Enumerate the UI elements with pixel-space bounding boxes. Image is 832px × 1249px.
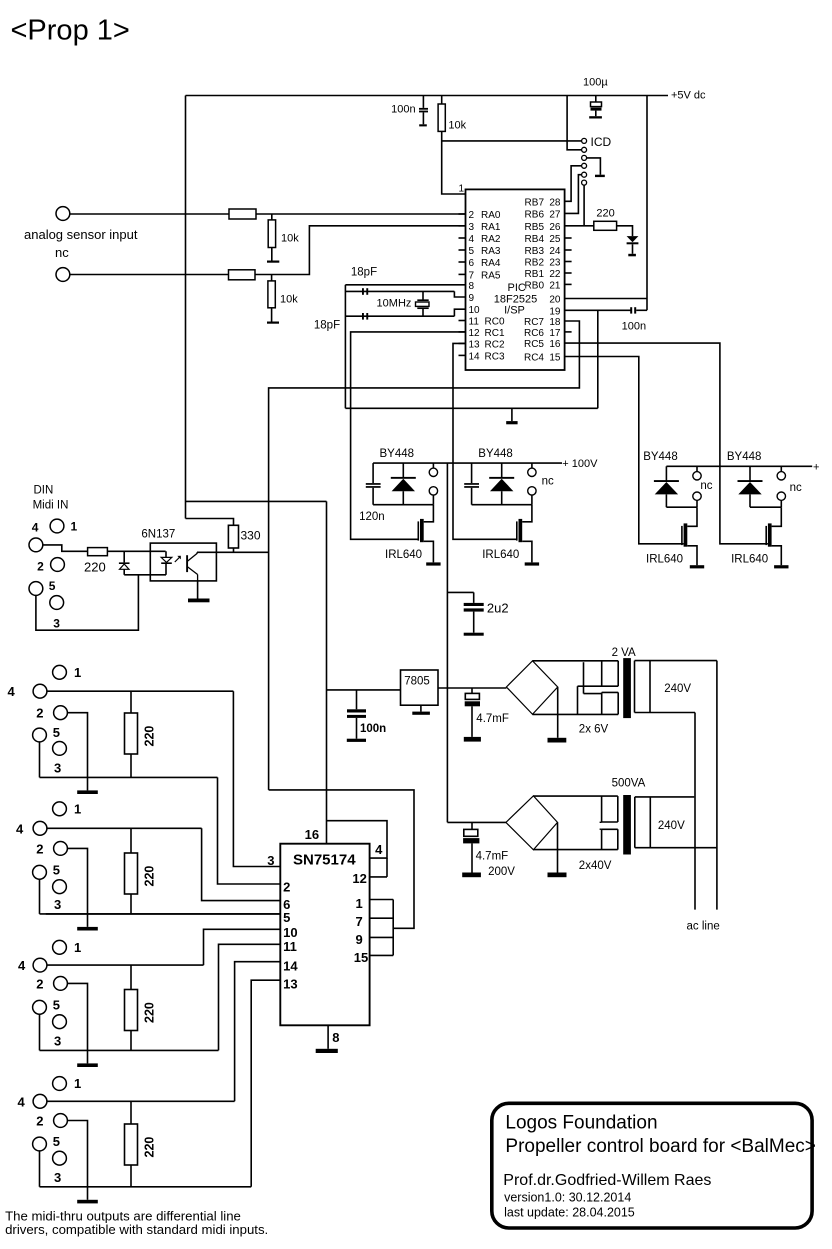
wire ground bus horizontal: [345, 407, 597, 409]
connector DIN-in pin1 circle: [50, 519, 64, 533]
wire +5V to PIC VDD pin20: [646, 96, 648, 311]
connector output 2 terminal A: [531, 463, 533, 468]
svg-text:100µ: 100µ: [583, 77, 608, 89]
transformer T2 core: [623, 795, 631, 855]
svg-text:220: 220: [143, 866, 157, 887]
svg-text:25: 25: [549, 234, 561, 245]
svg-text:4: 4: [16, 821, 24, 836]
transformer T1 secondary winding lower: [602, 691, 619, 693]
svg-text:2 VA: 2 VA: [612, 647, 636, 659]
svg-text:27: 27: [549, 209, 561, 220]
wire thru4 pin2 to return: [67, 1121, 87, 1187]
svg-text:20: 20: [549, 295, 561, 306]
svg-text:RC7: RC7: [524, 317, 544, 328]
wire MCLR net from 10k to PIC pin1: [442, 131, 466, 194]
wire 220 to LED: [617, 226, 633, 236]
connector thru3 pin5 circle: [33, 1000, 47, 1014]
connector output 4 terminal A: [780, 466, 782, 471]
svg-text:3: 3: [53, 617, 60, 631]
wire PIC pin26 to 220 resistor: [565, 225, 594, 227]
PIC pin 3 stub: [459, 225, 466, 227]
svg-text:26: 26: [549, 222, 561, 233]
svg-text:2: 2: [36, 706, 43, 721]
transformer T1 secondary leads: [533, 660, 619, 662]
transformer T1 core: [623, 658, 631, 718]
svg-text:24: 24: [549, 246, 561, 257]
svg-text:RA5: RA5: [481, 270, 501, 281]
svg-text:nc: nc: [55, 245, 69, 260]
svg-text:1: 1: [71, 520, 78, 534]
PIC pin 6 stub: [459, 261, 466, 263]
svg-text:4: 4: [32, 521, 39, 535]
wire PIC pin13 RC2 to Q2 gate: [453, 343, 517, 539]
PIC pin 12 stub: [459, 331, 466, 333]
svg-text:4: 4: [469, 234, 475, 245]
svg-text:SN75174: SN75174: [293, 852, 356, 869]
wire opto LED return: [124, 574, 166, 576]
svg-text:ac line: ac line: [687, 921, 720, 933]
wire thru1 return bus: [40, 776, 218, 778]
svg-text:17: 17: [549, 328, 561, 339]
ground 7805: [420, 705, 422, 711]
capacitor 18pF lower: [362, 313, 364, 320]
svg-text:IRL640: IRL640: [385, 549, 422, 561]
svg-text:2: 2: [36, 976, 43, 991]
capacitor 4.7mF 200V: [471, 822, 473, 829]
svg-text:5: 5: [53, 1134, 60, 1149]
connector thru2 pin5 circle: [33, 865, 47, 879]
wire thru3 return bus: [40, 1049, 219, 1051]
svg-text:1: 1: [459, 184, 465, 195]
svg-text:6: 6: [469, 258, 475, 269]
svg-text:2: 2: [36, 1114, 43, 1129]
svg-text:4: 4: [375, 842, 383, 857]
diode BY448 D1: [402, 463, 404, 478]
PIC pin 7 stub: [459, 273, 466, 275]
ground 100n at 7805: [347, 739, 366, 742]
svg-text:18: 18: [549, 317, 561, 328]
wire +100V trunk down to bridge: [446, 463, 448, 822]
svg-text:220: 220: [143, 1002, 157, 1023]
wire thru3 pin5 to return: [39, 1014, 41, 1050]
svg-text:RC5: RC5: [524, 339, 544, 350]
svg-text:220: 220: [143, 1137, 157, 1158]
svg-text:BY448: BY448: [727, 451, 762, 463]
svg-text:10k: 10k: [281, 233, 299, 245]
svg-text:2: 2: [36, 841, 43, 856]
svg-text:2: 2: [469, 210, 475, 221]
svg-text:4: 4: [18, 958, 26, 973]
wire driver pin3 to thru1 hot: [233, 691, 280, 866]
wire 330 to opto output: [233, 548, 235, 552]
LED indicator diode: [627, 236, 639, 242]
svg-text:<Prop 1>: <Prop 1>: [11, 15, 130, 47]
connector output 3 terminal A: [696, 466, 698, 471]
wire ac line 1: [694, 713, 696, 910]
svg-text:12: 12: [469, 328, 481, 339]
ground Q1 source: [426, 562, 440, 565]
svg-text:nc: nc: [542, 476, 554, 488]
svg-text:RC1: RC1: [485, 328, 505, 339]
svg-text:version1.0: 30.12.2014: version1.0: 30.12.2014: [504, 1191, 631, 1205]
wire ICD pin4 to PIC pin28: [565, 166, 582, 202]
svg-text:5: 5: [53, 862, 60, 877]
svg-text:Prof.dr.Godfried-Willem Raes: Prof.dr.Godfried-Willem Raes: [503, 1172, 711, 1189]
wire thru1 pin5 to return: [39, 742, 41, 778]
wire PIC pin19 to 100n cap: [565, 309, 632, 311]
connector thru2 pin2 circle: [54, 842, 68, 856]
wire OSC1 line upper: [345, 290, 454, 292]
svg-text:2u2: 2u2: [487, 601, 509, 616]
driver pin12 wire: [370, 876, 387, 878]
transformer T1 secondary crossover: [583, 662, 585, 693]
svg-text:100n: 100n: [622, 321, 646, 333]
svg-text:RC4: RC4: [524, 353, 544, 364]
svg-text:15: 15: [354, 950, 368, 965]
resistor 10k divider 2: [271, 275, 273, 281]
wire ICD pin6 to PIC pin26 net: [583, 185, 585, 226]
svg-text:8: 8: [469, 281, 475, 292]
svg-text:7: 7: [355, 914, 362, 929]
svg-text:200V: 200V: [488, 866, 515, 878]
resistor 220 thru1: [130, 691, 132, 713]
ground thru4: [87, 1187, 89, 1200]
svg-text:RB2: RB2: [525, 258, 545, 269]
wire OSC2 step to pin10: [454, 309, 465, 316]
PIC pin 17 stub: [565, 331, 572, 333]
svg-text:13: 13: [283, 977, 297, 992]
svg-text:RB1: RB1: [525, 269, 545, 280]
connector DIN-in pin2 circle: [51, 558, 65, 572]
connector DIN-in pin4 circle: [29, 538, 43, 552]
connector output 1 terminal B: [429, 487, 437, 495]
wire OSC1 step to pin9: [454, 291, 465, 297]
transformer T2 secondary winding lower: [602, 828, 618, 830]
svg-text:RB7: RB7: [525, 197, 545, 208]
wire +5V branch to SN75174: [186, 500, 327, 502]
PIC pin 5 stub: [459, 249, 466, 251]
transistor Q1 IRL640: [424, 505, 434, 522]
svg-text:240V: 240V: [658, 820, 685, 832]
svg-text:last update: 28.04.2015: last update: 28.04.2015: [504, 1206, 635, 1220]
svg-text:16: 16: [305, 827, 319, 842]
titleblock rounded box: [492, 1103, 812, 1228]
wire driver pin13 to thru4 return: [251, 980, 280, 1187]
connector ICD pin3: [582, 155, 587, 160]
svg-text:2: 2: [283, 880, 290, 895]
wire PIC pin16 RC5 to Q4 gate: [565, 343, 768, 544]
connector output 4 terminal B: [777, 492, 785, 500]
svg-text:12: 12: [352, 871, 366, 886]
opto internal LED: [165, 551, 167, 557]
connector thru4 pin1 circle: [53, 1077, 67, 1091]
wire +5V left trunk down: [185, 96, 187, 519]
optocoupler 6N137 body: [150, 543, 216, 581]
svg-text:BY448: BY448: [380, 448, 415, 460]
capacitor channel 2: [471, 463, 473, 483]
wire sensor 1 to resistor: [70, 213, 229, 215]
wire opto output to RC7 net: [197, 551, 269, 553]
wire channel 2 cathode bus: [472, 504, 532, 506]
svg-text:220: 220: [143, 726, 157, 747]
svg-text:ICD: ICD: [591, 135, 612, 149]
svg-text:21: 21: [549, 280, 561, 291]
svg-text:100n: 100n: [360, 723, 386, 735]
svg-text:5: 5: [283, 910, 290, 925]
svg-text:RA4: RA4: [481, 258, 501, 269]
ground 4.7mF low voltage: [464, 737, 481, 742]
svg-text:Logos Foundation: Logos Foundation: [505, 1113, 657, 1134]
wire PIC pin15 RC4 to Q3 gate: [565, 357, 684, 544]
diode BY448 D2: [501, 463, 503, 478]
svg-text:9: 9: [469, 293, 475, 304]
svg-text:7: 7: [469, 270, 475, 281]
ground thru2: [87, 914, 89, 927]
wire PIC pin19 VSS riser down: [597, 310, 599, 408]
wire channel 1 cathode bus: [373, 504, 433, 506]
wire ac line 2: [716, 661, 718, 910]
connector thru2 pin1 circle: [53, 802, 67, 816]
connector thru4 pin3 circle: [53, 1151, 67, 1165]
wire channel 3 cathode bus: [666, 506, 697, 508]
wire sensor 2 to resistor: [70, 274, 229, 276]
svg-text:6N137: 6N137: [141, 529, 175, 541]
crystal 10MHz: [422, 291, 424, 300]
resistor 10k divider 1: [271, 214, 273, 220]
PIC 18F2525 U1 body: [466, 189, 565, 370]
PIC pin 22 stub: [565, 272, 572, 274]
connector thru2 pin4 circle: [33, 821, 47, 835]
svg-text:4: 4: [18, 1094, 26, 1109]
capacitor 100n at 7805 output: [356, 690, 358, 709]
wire ICD pin3 to ground: [587, 158, 601, 175]
svg-text:18pF: 18pF: [314, 320, 340, 332]
diode BY448 D4: [749, 466, 751, 481]
wire +100V from bridge B2: [447, 821, 506, 823]
ground opto emitter: [197, 581, 199, 599]
svg-text:RA2: RA2: [481, 234, 501, 245]
ground bridge B2: [557, 822, 559, 872]
capacitor 100n at pin19: [630, 307, 632, 313]
connector thru1 pin2 circle: [54, 706, 68, 720]
svg-text:28: 28: [549, 197, 561, 208]
wire channel 4 cathode bus: [750, 506, 781, 508]
svg-text:RB4: RB4: [525, 234, 545, 245]
wire driver pin10 to thru3 hot: [204, 929, 281, 965]
svg-text:10MHz: 10MHz: [377, 298, 412, 310]
wire driver pin2 to thru1 return: [218, 777, 281, 884]
svg-text:4: 4: [8, 684, 16, 699]
svg-text:RA1: RA1: [481, 222, 501, 233]
PIC pin 13 stub: [459, 342, 466, 344]
svg-text:11: 11: [283, 939, 297, 954]
wire ICD pin1 to MCLR: [442, 140, 582, 142]
ground LED: [632, 244, 634, 254]
svg-text:9: 9: [355, 932, 362, 947]
svg-text:3: 3: [469, 222, 475, 233]
capacitor 4.7mF low voltage: [471, 688, 473, 693]
svg-text:2x40V: 2x40V: [579, 860, 612, 872]
svg-text:15: 15: [549, 353, 561, 364]
wire driver pin5 to thru2 return: [46, 913, 280, 915]
svg-text:2: 2: [37, 560, 44, 574]
svg-text:3: 3: [54, 1170, 61, 1185]
svg-text:RB6: RB6: [525, 209, 545, 220]
transformer T1 secondary winding upper: [601, 661, 603, 686]
wire ICD pin5 to PIC pin27: [565, 175, 582, 214]
svg-text:1: 1: [74, 1076, 81, 1091]
connector DIN-in pin5 circle: [29, 582, 43, 596]
resistor 220 thru4: [130, 1101, 132, 1124]
wire OSC2 line lower: [345, 315, 454, 317]
wire thru1 pin4 hot: [47, 690, 234, 692]
svg-text:RA3: RA3: [481, 246, 501, 257]
wire VSS riser at crystal: [344, 285, 346, 409]
svg-text:BY448: BY448: [643, 451, 678, 463]
svg-text:IRL640: IRL640: [482, 549, 519, 561]
svg-text:Propeller control board for <B: Propeller control board for <BalMec>: [505, 1136, 816, 1157]
connector thru3 pin3 circle: [53, 1015, 67, 1029]
wire thru1 pin2 to return: [67, 713, 87, 778]
resistor 10k MCLR pullup: [441, 96, 443, 105]
connector thru1 pin5 circle: [33, 728, 47, 742]
svg-text:1: 1: [74, 940, 81, 955]
connector thru3 pin1 circle: [53, 940, 67, 954]
wire PIC pin20 to +5V: [565, 298, 647, 300]
svg-text:1: 1: [74, 665, 81, 680]
resistor 220 thru3: [130, 965, 132, 989]
svg-text:+: +: [813, 461, 819, 473]
PIC pin 23 stub: [565, 261, 572, 263]
svg-text:nc: nc: [790, 482, 802, 494]
connector thru4 pin2 circle: [54, 1114, 68, 1128]
wire +5V to 330 pullup: [186, 519, 234, 526]
capacitor 2u2: [447, 591, 473, 593]
svg-text:RB3: RB3: [525, 246, 545, 257]
wire driver pin6 to thru2 hot: [202, 828, 281, 900]
capacitor 18pF upper: [362, 288, 364, 295]
ground symbol main: [511, 408, 513, 421]
svg-text:19: 19: [549, 306, 561, 317]
svg-text:3: 3: [54, 1033, 61, 1048]
resistor sensor series 1: [229, 209, 256, 219]
svg-text:+ 100V: + 100V: [562, 458, 598, 470]
ground 10k divider 2: [271, 308, 273, 322]
capacitor 100u electrolytic: [595, 96, 597, 103]
driver SN75174 U4 body: [280, 844, 369, 1026]
svg-text:16: 16: [549, 339, 561, 350]
resistor 220 LED series: [594, 221, 617, 230]
svg-text:nc: nc: [700, 480, 712, 492]
svg-text:RC6: RC6: [524, 328, 544, 339]
svg-text:220: 220: [596, 208, 614, 220]
connector thru3 pin2 circle: [54, 977, 68, 991]
PIC pin 2 stub: [459, 213, 466, 215]
wire thru2 pin4 hot: [47, 827, 202, 829]
connector ICD pin2: [582, 147, 587, 152]
svg-text:10: 10: [469, 305, 481, 316]
svg-text:220: 220: [84, 560, 106, 575]
svg-text:23: 23: [549, 258, 561, 269]
connector thru1 pin1 circle: [53, 665, 67, 679]
connector output 2 terminal B: [528, 487, 536, 495]
svg-text:10k: 10k: [448, 120, 466, 132]
svg-text:analog sensor input: analog sensor input: [24, 227, 138, 242]
ground 2u2: [464, 633, 484, 636]
connector output 1 terminal A: [432, 463, 434, 468]
wire sensor 2 to PIC pin3 RA1: [255, 226, 466, 275]
svg-text:RB5: RB5: [525, 222, 545, 233]
svg-text:8: 8: [332, 1030, 339, 1045]
connector thru3 pin4 circle: [33, 958, 47, 972]
wire +5V top rail: [186, 95, 669, 97]
svg-text:5: 5: [49, 579, 56, 593]
connector thru4 pin4 circle: [33, 1094, 47, 1108]
svg-text:4.7mF: 4.7mF: [476, 851, 509, 863]
transistor Q2 IRL640: [522, 505, 532, 522]
wire thru2 return bus: [40, 913, 281, 915]
ground Q2 source: [525, 562, 539, 565]
svg-text:240V: 240V: [664, 683, 691, 695]
diode reverse protection: [123, 551, 125, 562]
wire DIN-in pin4 to 220: [43, 545, 88, 551]
resistor 330 pullup: [228, 525, 238, 548]
wire PIC pin18 RC7 to opto output: [269, 321, 580, 790]
resistor sensor series 2: [229, 270, 256, 280]
resistor 220 thru2: [130, 828, 132, 853]
PIC pin 14 stub: [459, 354, 466, 356]
connector thru2 pin3 circle: [53, 880, 67, 894]
svg-text:RB0: RB0: [525, 280, 545, 291]
svg-text:1: 1: [74, 801, 81, 816]
driver pin8 ground: [327, 1025, 329, 1049]
wire sensor 1 to PIC pin2 RA0: [256, 213, 466, 215]
wire thru3 pin2 to return: [67, 983, 87, 1050]
wire 7805 output to +5V net: [327, 689, 401, 691]
connector thru1 pin3 circle: [53, 742, 67, 756]
ground 10k divider 1: [271, 248, 273, 261]
wire +100V rail channels 1-2: [373, 462, 562, 464]
driver pin4 wire: [327, 821, 388, 858]
regulator 7805 U3 body: [401, 670, 439, 705]
svg-text:RC3: RC3: [485, 351, 505, 362]
svg-text:10k: 10k: [280, 294, 298, 306]
ground Q3 source: [690, 565, 704, 568]
capacitor 100n top-left: [422, 96, 424, 108]
transformer T1 primary winding: [634, 661, 636, 713]
opto internal transistor: [186, 555, 188, 572]
wire thru4 pin5 to return: [39, 1151, 41, 1187]
svg-text:14: 14: [469, 351, 481, 362]
connector ICD pin6: [582, 180, 587, 185]
wire thru4 pin4 hot: [47, 1100, 235, 1102]
svg-text:13: 13: [469, 339, 481, 350]
wire thru4 return bus: [40, 1186, 252, 1188]
svg-text:drivers, compatible with stand: drivers, compatible with standard midi i…: [5, 1222, 268, 1237]
wire thru2 pin2 to return: [67, 848, 87, 914]
wire driver pin11 to thru3 return: [219, 944, 281, 1050]
transistor Q4 IRL640: [772, 507, 782, 526]
svg-text:RC2: RC2: [485, 339, 505, 350]
svg-text:1: 1: [355, 896, 362, 911]
svg-text:RA0: RA0: [481, 210, 501, 221]
ground thru3: [87, 1050, 89, 1063]
svg-text:500VA: 500VA: [612, 778, 646, 790]
svg-text:IRL640: IRL640: [646, 554, 683, 566]
ground bridge B1: [557, 687, 559, 738]
connector DIN-in pin3 circle: [50, 596, 64, 610]
svg-text:Midi IN: Midi IN: [33, 500, 69, 512]
